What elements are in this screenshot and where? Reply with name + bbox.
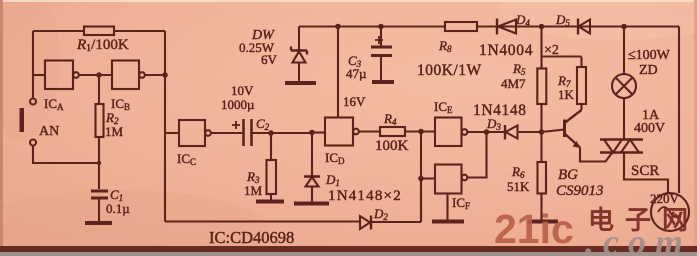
node lamp top <box>621 24 627 30</box>
wire emitter to gate <box>580 148 612 162</box>
wire triac bottom <box>624 153 668 194</box>
wire down to R2 <box>98 75 100 104</box>
wire right edge <box>678 27 680 194</box>
wire lamp top <box>623 27 625 75</box>
svg-text:100K/1W: 100K/1W <box>417 62 482 79</box>
svg-text:ZD: ZD <box>639 63 658 78</box>
svg-text:.com: .com <box>585 222 692 256</box>
svg-text:100K: 100K <box>375 138 409 154</box>
zener DW <box>298 27 300 51</box>
wire R4 to gates <box>405 130 435 132</box>
ground DW <box>285 81 316 85</box>
svg-text:220V: 220V <box>650 191 680 206</box>
node base <box>539 129 545 135</box>
node at D1 <box>309 130 315 136</box>
ground D1 <box>294 202 329 206</box>
svg-text:21ic: 21ic <box>494 206 574 252</box>
wire IC_F ground <box>446 194 448 221</box>
wire IC_C out to C2 <box>211 132 242 134</box>
svg-text:1N4004: 1N4004 <box>479 42 533 59</box>
pushbutton AN <box>30 99 36 105</box>
svg-text:1M: 1M <box>244 183 263 198</box>
node after C2 <box>268 130 274 136</box>
ground R3 <box>256 200 284 204</box>
wire IC_D input <box>312 131 325 133</box>
inverter IC_F <box>435 165 462 194</box>
svg-text:400V: 400V <box>634 121 665 136</box>
inverter IC_E <box>435 118 462 147</box>
inverter IC_A <box>45 61 73 90</box>
inverter IC_D <box>325 118 353 146</box>
wire IC_A out to IC_B in <box>79 74 112 76</box>
node 16V line <box>335 24 341 30</box>
node IC_B out <box>162 72 168 78</box>
resistor R4 <box>380 127 405 136</box>
wire node to R3 <box>270 133 272 160</box>
AC source <box>651 193 689 231</box>
wire IC_C input <box>165 132 179 134</box>
bottom rail <box>165 180 421 222</box>
svg-text:AN: AN <box>39 124 59 139</box>
inverter IC_B <box>112 61 139 90</box>
transistor BG <box>563 120 566 138</box>
diode D2 <box>370 216 372 230</box>
triac SCR <box>600 140 643 153</box>
svg-text:SCR: SCR <box>631 163 659 179</box>
transistor BG base wire <box>542 130 565 133</box>
svg-text:16V: 16V <box>343 94 366 109</box>
resistor R7 <box>577 67 586 104</box>
svg-text:4M7: 4M7 <box>501 76 526 91</box>
node C3 <box>378 24 384 30</box>
svg-text:1N4148: 1N4148 <box>473 102 527 119</box>
svg-text:IC:CD40698: IC:CD40698 <box>209 228 294 247</box>
wire R2 bottom to C1 <box>98 137 100 189</box>
svg-text:0.1µ: 0.1µ <box>106 201 130 216</box>
svg-text:≤100W: ≤100W <box>628 48 671 63</box>
node D4-D5 <box>539 24 545 30</box>
svg-text:47µ: 47µ <box>346 66 367 81</box>
wire R1 loop top <box>33 30 165 32</box>
node D3 input <box>484 129 490 135</box>
diode D1 <box>311 133 313 176</box>
node junction at R2 top <box>96 72 102 78</box>
ground C3 <box>372 80 394 84</box>
wire button bottom <box>33 146 99 164</box>
node IC_F input <box>418 176 424 182</box>
wire R5/R7 supply <box>540 27 542 69</box>
wire IC_A input <box>33 74 45 76</box>
capacitor C2 plus <box>232 121 240 129</box>
node R4 right <box>418 129 424 135</box>
label plus C3 <box>375 36 383 44</box>
svg-text:51K: 51K <box>507 179 530 194</box>
wire IC_F out up <box>468 132 487 178</box>
svg-text:1000µ: 1000µ <box>221 97 255 112</box>
resistor R3 <box>267 160 277 194</box>
resistor R1 <box>84 27 114 36</box>
wire supply down to IC_D <box>337 27 339 118</box>
svg-text:1N4148×2: 1N4148×2 <box>328 188 402 204</box>
wire lamp to triac <box>623 98 625 140</box>
ground R6 <box>528 220 558 224</box>
resistor R6 <box>538 162 547 194</box>
wire IC_D out to R4 <box>359 130 380 132</box>
wire left vertical to button <box>32 31 34 98</box>
wire node to R6 <box>540 132 542 162</box>
wire C2 to node <box>253 132 313 134</box>
top rail <box>299 25 679 27</box>
resistor R2 <box>96 104 104 137</box>
capacitor C3 <box>380 27 382 47</box>
svg-text:CS9013: CS9013 <box>556 183 604 199</box>
ground C1 <box>85 221 112 225</box>
svg-text:R1/100K: R1/100K <box>76 37 129 54</box>
diode D4 <box>496 19 498 35</box>
node at 99,163 <box>97 161 101 165</box>
svg-text:10V: 10V <box>231 83 254 98</box>
wire vertical gates input <box>420 132 422 223</box>
capacitor C2 <box>244 119 252 146</box>
resistor R5 <box>537 69 546 105</box>
wire IC_F input <box>421 177 435 179</box>
lamp ZD <box>612 74 636 98</box>
diode D5 <box>577 19 579 35</box>
wire IC_E out <box>468 131 506 133</box>
resistor R8 on rail <box>445 22 477 31</box>
svg-text:6V: 6V <box>261 52 278 67</box>
ground IC_F <box>432 220 464 224</box>
svg-text:1K: 1K <box>558 87 575 102</box>
inverter IC_C <box>179 120 205 146</box>
wire right vertical (IC_B out rail down) <box>164 31 166 222</box>
wire IC_B output <box>145 74 165 76</box>
diode D3 <box>504 125 506 140</box>
capacitor C1 <box>91 191 108 198</box>
svg-text:1M: 1M <box>105 124 124 139</box>
svg-text:BG: BG <box>558 167 578 183</box>
